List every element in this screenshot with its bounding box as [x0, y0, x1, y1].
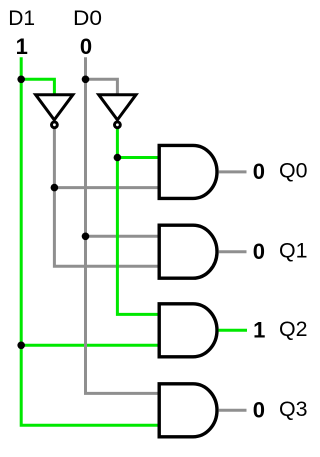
junction on ~D1 at Q0 lower-input branch	[51, 184, 59, 192]
wire net D1 branch to inverter NOT1 input	[21, 79, 54, 96]
AND gate G3 (output Q3)	[159, 384, 217, 437]
inverter NOT2 bubble	[115, 122, 121, 128]
svg-text:Q2: Q2	[279, 318, 308, 341]
svg-text:1: 1	[253, 317, 265, 342]
wire net ~D0 branch to Q0 upper input	[117, 156, 160, 159]
wire Q1 output (low gray)	[219, 250, 247, 253]
junction on D0 at inverter NOT2 branch	[82, 76, 90, 84]
junction on D1 at Q2 lower-input branch	[17, 342, 25, 350]
wire Q0 output (low gray)	[219, 170, 247, 173]
junction on D1 at inverter NOT1 branch	[17, 76, 25, 84]
svg-text:D1: D1	[8, 7, 35, 30]
wire net D0 (low, gray): vertical trunk with elbow to Q3 upper input	[86, 57, 161, 393]
svg-text:0: 0	[253, 239, 265, 264]
wire Q2 output (high green)	[219, 329, 248, 332]
svg-text:0: 0	[253, 397, 265, 422]
wire net D0 branch to inverter NOT2 input	[86, 79, 118, 96]
svg-text:0: 0	[80, 34, 92, 59]
AND gate G0 (output Q0)	[159, 145, 217, 198]
svg-text:0: 0	[253, 159, 265, 184]
svg-text:D0: D0	[73, 7, 102, 30]
wire net ~D0 (inverter NOT2 output, high green): vertical with elbow to Q2 upper input	[117, 128, 160, 314]
inverter NOT1 bubble	[52, 122, 58, 128]
wire net ~D1 (inverter NOT1 output, low gray): vertical with elbow to Q1 lower input	[54, 128, 160, 266]
svg-text:1: 1	[16, 34, 28, 59]
wire net ~D1 branch to Q0 lower input	[54, 186, 160, 189]
svg-text:Q1: Q1	[279, 240, 308, 263]
svg-text:Q0: Q0	[279, 160, 308, 183]
AND gate G1 (output Q1)	[159, 225, 217, 278]
wire net D1 branch to Q2 lower input	[21, 344, 160, 347]
inverter NOT1 (D1 input) triangle	[36, 95, 73, 120]
wire Q3 output (low gray)	[219, 409, 247, 412]
AND gate G2 (output Q2)	[159, 304, 217, 357]
wire net D0 branch to Q1 upper input	[86, 235, 161, 238]
wire net D1 (high, green): vertical trunk with elbow to Q3 lower input	[21, 57, 160, 425]
svg-text:Q3: Q3	[279, 398, 308, 421]
junction on D0 at Q1 upper-input branch	[82, 233, 90, 241]
inverter NOT2 (D0 input) triangle	[99, 95, 136, 120]
junction on ~D0 at Q0 upper-input branch	[114, 154, 122, 162]
